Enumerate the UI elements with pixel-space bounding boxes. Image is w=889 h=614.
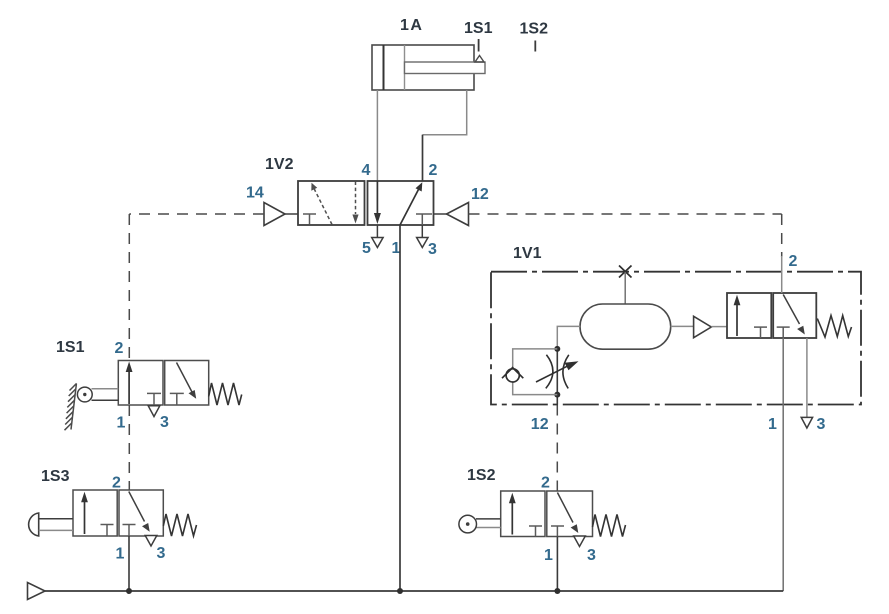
valve 1S1 body bbox=[118, 361, 208, 406]
sensor mark 1S1 tick bbox=[478, 39, 480, 52]
valve 1S2 exhaust port 3 bbox=[574, 536, 586, 547]
valve 1V2 right box diagonal arrow port1 to 2 bbox=[400, 188, 420, 226]
svg-text:2: 2 bbox=[789, 253, 798, 270]
svg-text:1V1: 1V1 bbox=[513, 245, 542, 262]
valve 1S1 exhaust port 3 bbox=[148, 406, 160, 417]
wire cylinder right port to 1V2 port 2 bbox=[423, 90, 467, 135]
timer 1V1 valve return spring bbox=[817, 316, 851, 338]
timer 1V1 wire reservoir left bbox=[557, 326, 580, 349]
cylinder 1A position flag on rod end bbox=[475, 56, 484, 63]
timer 1V1 3/2 valve body bbox=[727, 293, 816, 338]
valve 1V2 exhaust port 5 bbox=[376, 225, 378, 237]
svg-text:1: 1 bbox=[544, 547, 553, 564]
svg-text:1V2: 1V2 bbox=[265, 156, 294, 173]
valve 1V2 exhaust port 3 bbox=[421, 225, 423, 237]
valve 1S3 body bbox=[73, 490, 163, 536]
valve 1S2 return spring bbox=[593, 515, 626, 537]
svg-text:14: 14 bbox=[246, 185, 264, 202]
valve 1V2 right box blocked port 3 T bbox=[416, 214, 432, 225]
valve 1S3 left box blocked T bbox=[101, 525, 114, 537]
wire 1V2 port 1 to supply line bbox=[399, 225, 401, 591]
valve 1S1 right box diagonal arrow bbox=[177, 363, 193, 393]
valve 1S3 return spring bbox=[163, 514, 196, 536]
svg-text:3: 3 bbox=[428, 241, 437, 258]
svg-text:3: 3 bbox=[817, 416, 826, 433]
supply node at 1S3 bbox=[126, 588, 132, 594]
svg-text:1S3: 1S3 bbox=[41, 468, 70, 485]
timer 1V1 pilot triangle to valve wire bbox=[711, 326, 727, 328]
timer 1V1 pilot line reservoir to triangle bbox=[671, 325, 694, 327]
valve 1V2 5/2 body bbox=[298, 181, 434, 225]
svg-text:4: 4 bbox=[362, 162, 371, 179]
timer 1V1 valve right box diagonal arrow 2 to 3 bbox=[783, 295, 799, 325]
timer 1V1 valve left box arrow bbox=[736, 299, 738, 336]
timer 1V1 pilot triangle bbox=[694, 316, 712, 337]
timer 1V1 port 3 wire and exhaust bbox=[806, 338, 808, 417]
cylinder 1A bbox=[372, 45, 485, 90]
svg-text:12: 12 bbox=[471, 186, 489, 203]
valve 1V2 left box blocked port T bbox=[303, 214, 316, 225]
svg-text:2: 2 bbox=[541, 475, 550, 492]
wire 1S2 port 1 to supply line bbox=[556, 537, 558, 592]
valve 1S1 right box blocked T bbox=[170, 393, 184, 405]
timer 1V1 node junction bottom bbox=[554, 392, 560, 398]
svg-text:1S2: 1S2 bbox=[520, 21, 549, 38]
valve 1S2 roller actuator bbox=[459, 515, 501, 533]
svg-text:1S1: 1S1 bbox=[56, 339, 85, 356]
valve 1S3 exhaust port 3 bbox=[145, 536, 157, 547]
wire cylinder left port to 1V2 port 4 bbox=[376, 90, 378, 181]
timer 1V1 valve right box blocked port 1 T bbox=[777, 327, 790, 338]
svg-text:1S2: 1S2 bbox=[467, 467, 496, 484]
svg-text:5: 5 bbox=[362, 240, 371, 257]
timer 1V1 check valve ball bbox=[506, 369, 519, 382]
valve 1V2 pilot 12 triangle bbox=[434, 213, 447, 215]
timer 1V1 check valve seat bbox=[502, 368, 523, 379]
timer 1V1 dash-dot enclosure bbox=[491, 272, 861, 405]
sensor mark 1S2 tick bbox=[534, 41, 536, 52]
timer 1V1 main line through throttle bbox=[556, 349, 558, 405]
valve 1S2 left box arrow bbox=[511, 497, 513, 535]
valve 1V2 right box vertical arrow port4 to 5 bbox=[376, 181, 378, 215]
valve 1S1 cam wall with hatching bbox=[65, 383, 77, 430]
valve 1V2 left box diagonal dashed arrow bbox=[314, 189, 332, 225]
valve 1S2 right box diagonal arrow 2 to 3 bbox=[557, 493, 573, 523]
wire 1V1 port 1 to supply line bbox=[782, 338, 784, 591]
valve 1S2 left box blocked T bbox=[529, 526, 542, 537]
svg-text:1: 1 bbox=[117, 415, 126, 432]
svg-text:12: 12 bbox=[531, 416, 549, 433]
svg-text:3: 3 bbox=[160, 414, 169, 431]
valve 1S3 right box diagonal arrow 2 to 3 bbox=[129, 492, 145, 522]
svg-text:1A: 1A bbox=[400, 17, 423, 34]
pilot line 12 dashed route bbox=[469, 214, 782, 257]
supply source triangle bbox=[28, 583, 46, 600]
valve 1V2 left box vertical dashed arrow bbox=[355, 182, 357, 215]
timer 1V1 closed pilot X symbol bbox=[619, 266, 632, 278]
supply line bbox=[45, 590, 783, 592]
svg-text:2: 2 bbox=[115, 340, 124, 357]
valve 1V2 pilot 14 triangle bbox=[285, 213, 298, 215]
valve 1S1 left box blocked port 3 T bbox=[147, 393, 161, 405]
timer 1V1 air reservoir bbox=[580, 304, 671, 349]
svg-text:1: 1 bbox=[116, 546, 125, 563]
timer 1V1 stub from X to reservoir bbox=[624, 272, 626, 304]
timer 1V1 throttle adjust arrow bbox=[536, 365, 570, 382]
timer 1V1 port 2 wire into valve bbox=[781, 256, 783, 293]
valve 1S1 return spring bbox=[209, 383, 242, 405]
valve 1S1 roller actuator bbox=[77, 387, 118, 402]
valve 1S1 left box arrow 1 to 2 bbox=[128, 366, 130, 404]
svg-text:3: 3 bbox=[157, 545, 166, 562]
wire 1S3 port 1 to supply line bbox=[128, 536, 130, 591]
svg-text:2: 2 bbox=[429, 162, 438, 179]
timer 1V1 valve left box blocked T bbox=[754, 327, 767, 338]
svg-text:2: 2 bbox=[112, 475, 121, 492]
timer 1V1 check valve bypass loop bbox=[513, 349, 558, 395]
timer 1V1 throttle arcs bbox=[546, 355, 553, 389]
supply node at 1S2 bbox=[554, 588, 560, 594]
pilot line 14 dashed route bbox=[129, 214, 264, 490]
svg-text:1: 1 bbox=[768, 416, 777, 433]
svg-text:1S1: 1S1 bbox=[464, 20, 493, 37]
valve 1S3 left box arrow bbox=[84, 496, 86, 534]
supply node at 1V2 port 1 bbox=[397, 588, 403, 594]
timer 1V1 node junction top bbox=[554, 346, 560, 352]
svg-text:3: 3 bbox=[587, 547, 596, 564]
valve 1S3 push button actuator bbox=[29, 513, 39, 536]
valve 1S3 right box blocked port 1 T bbox=[123, 525, 136, 537]
valve 1S2 right box blocked port 1 T bbox=[551, 526, 564, 537]
pilot line 12 lower dashed segment 1V1 to 1S2 bbox=[556, 405, 558, 492]
valve 1S2 body bbox=[501, 491, 593, 537]
